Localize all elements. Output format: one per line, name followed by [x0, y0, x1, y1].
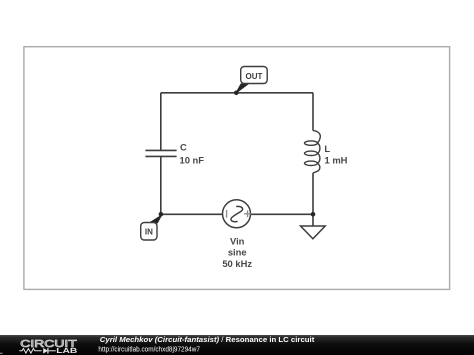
voltage source plus terminal mark — [244, 210, 251, 217]
wire top horizontal (OUT net) — [161, 92, 313, 94]
svg-text:1 mH: 1 mH — [325, 154, 348, 165]
node junction dot ground — [311, 212, 316, 217]
svg-text:http://circuitlab.com/chxd8j97: http://circuitlab.com/chxd8j97294w7 — [98, 346, 200, 353]
wire bottom left (IN node to source) — [161, 213, 223, 215]
svg-text:sine: sine — [228, 246, 247, 257]
wire left vertical upper — [160, 93, 162, 150]
svg-text:10 nF: 10 nF — [180, 154, 205, 165]
ground symbol — [301, 226, 326, 239]
wire right vertical upper — [312, 93, 314, 131]
footer black bar — [0, 335, 474, 355]
voltage source sine squiggle — [231, 206, 243, 221]
svg-text:50 kHz: 50 kHz — [222, 258, 252, 269]
inductor L coil — [305, 131, 321, 173]
footer logo left edge dash — [0, 352, 3, 354]
voltage source minus terminal mark — [226, 210, 228, 218]
svg-text:Vin: Vin — [230, 235, 245, 246]
schematic border frame — [24, 47, 450, 290]
IN flag tail — [151, 215, 162, 223]
svg-text:Cyril Mechkov (Circuit-fantasi: Cyril Mechkov (Circuit-fantasist) / Reso… — [100, 335, 315, 344]
IN flag box — [141, 223, 157, 241]
OUT flag box — [241, 67, 268, 84]
wire bottom right (source to ground node) — [251, 213, 314, 215]
svg-text:IN: IN — [145, 227, 153, 236]
node junction dot OUT — [234, 91, 239, 96]
wire right vertical lower — [312, 173, 314, 214]
OUT flag tail — [236, 84, 249, 94]
wire left vertical lower — [160, 156, 162, 214]
svg-text:OUT: OUT — [246, 72, 263, 81]
wire ground stub — [312, 214, 314, 226]
svg-text:L: L — [324, 143, 330, 154]
svg-text:C: C — [180, 142, 187, 153]
node junction dot IN corner — [159, 212, 164, 217]
footer logo diode symbol — [43, 348, 48, 354]
voltage source V1 circle — [223, 200, 251, 228]
capacitor C — [145, 150, 176, 156]
svg-text:LAB: LAB — [56, 346, 77, 355]
footer logo resistor zigzag wire — [19, 349, 41, 354]
